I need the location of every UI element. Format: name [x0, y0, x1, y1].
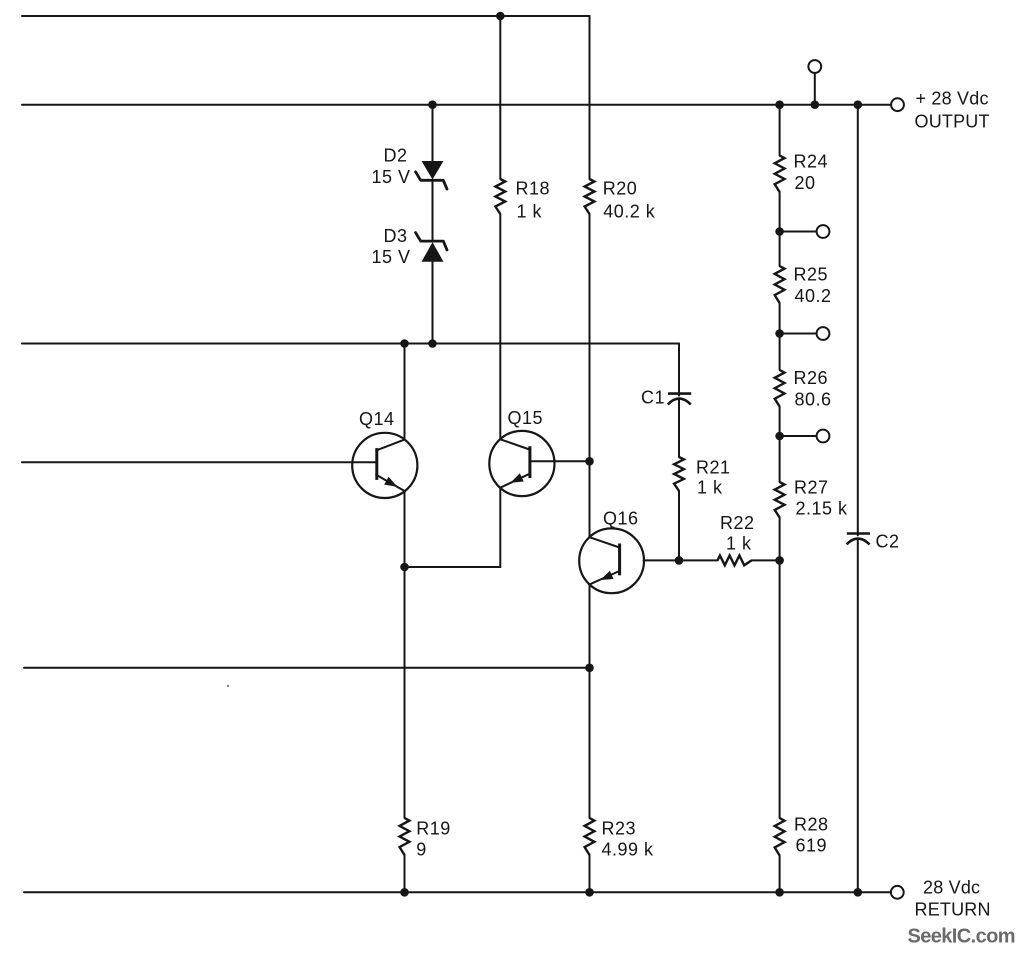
svg-text:Q14: Q14 [359, 409, 395, 429]
resistor R19 [400, 818, 410, 855]
wire third rail (to D3 cathode and C1) [22, 343, 679, 345]
wire C2 top lead [857, 105, 859, 536]
svg-text:+ 28 Vdc: + 28 Vdc [916, 89, 989, 109]
wire tap 3 [780, 435, 817, 437]
svg-text:Q16: Q16 [603, 509, 639, 529]
wire 28V return rail [24, 891, 891, 893]
junction return rail / R28 bottom [775, 888, 784, 897]
terminal 28 Vdc RETURN [891, 886, 904, 899]
wire fifth rail to R23 [589, 668, 591, 818]
svg-text:15 V: 15 V [372, 167, 411, 187]
svg-text:Q15: Q15 [508, 408, 544, 428]
svg-text:R28: R28 [794, 815, 829, 835]
wire Q16 base to R22 [644, 559, 718, 561]
junction Q14 emitter node [400, 563, 409, 572]
svg-text:1 k: 1 k [726, 534, 752, 554]
svg-text:C2: C2 [876, 532, 900, 552]
transistor Q15 body [489, 431, 554, 496]
wire R19 bottom lead [404, 855, 406, 892]
svg-text:40.2 k: 40.2 k [603, 202, 656, 222]
wire D2 anode lead [432, 105, 434, 161]
svg-text:R21: R21 [696, 458, 731, 478]
wire +28V output rail [22, 104, 891, 106]
wire Q15 emitter down [499, 488, 501, 567]
terminal top open circle [808, 60, 821, 73]
svg-text:SeekIC.com: SeekIC.com [908, 926, 1015, 948]
wire R21 bottom lead [678, 491, 680, 560]
resistor R20 [585, 179, 595, 214]
junction tap R24/R25 [775, 227, 784, 236]
wire Q15 emitter to Q14 emitter node [405, 566, 501, 568]
resistor R25 [775, 266, 785, 303]
wire top rail (node to R18/R20 top) [22, 15, 590, 17]
wire tap 2 [780, 333, 817, 335]
wire R24 to R25 [779, 192, 781, 266]
wire third rail corner down to C1 [678, 344, 680, 396]
svg-text:R24: R24 [794, 152, 829, 172]
svg-text:R23: R23 [602, 819, 637, 839]
wire Q14 emitter down [404, 491, 406, 818]
svg-text:R20: R20 [603, 179, 638, 199]
wire R20 bottom to Q16 collector [589, 214, 591, 537]
junction return rail / R23 bottom [585, 888, 594, 897]
svg-text:D3: D3 [384, 226, 408, 246]
svg-text:OUTPUT: OUTPUT [915, 112, 990, 132]
resistor R24 [775, 156, 785, 193]
junction tap R25/R26 [775, 329, 784, 338]
wire C2 bottom lead [857, 539, 859, 893]
junction +28V rail / terminal stub [811, 100, 820, 109]
junction tap R26/R27 [775, 432, 784, 441]
resistor R18 [495, 179, 505, 214]
junction +28V rail / D2 anode [428, 100, 437, 109]
junction fifth rail / R23 line [585, 664, 594, 673]
wire C1 bottom to R21 [678, 399, 680, 457]
terminal tap 3 [817, 430, 830, 443]
junction top rail / R18 line [496, 12, 505, 21]
wire top terminal stub [814, 73, 816, 105]
svg-text:C1: C1 [641, 388, 665, 408]
svg-text:D2: D2 [384, 146, 408, 166]
wire R18 top lead [499, 16, 501, 179]
transistor Q15 emitter stroke [500, 474, 529, 488]
svg-text:15 V: 15 V [372, 247, 411, 267]
junction third rail / Q14 collector line [400, 339, 409, 348]
svg-text:40.2: 40.2 [795, 286, 832, 306]
transistor Q14 collector stroke [376, 440, 404, 451]
wire D3 anode lead [432, 262, 434, 344]
terminal +28 Vdc OUTPUT [891, 98, 904, 111]
junction return rail / C2 bottom [854, 888, 863, 897]
transistor Q15 base stroke [530, 460, 590, 462]
junction R21 / Q16 base node [675, 556, 684, 565]
transistor Q16 body [579, 528, 644, 593]
wire R27 to R28 [779, 518, 781, 819]
svg-text:RETURN: RETURN [915, 900, 991, 920]
transistor Q14 emitter stroke [376, 475, 405, 491]
svg-text:R27: R27 [794, 478, 829, 498]
transistor Q15 emitter arrow [511, 473, 524, 483]
junction R22 / divider chain [775, 556, 784, 565]
resistor R28 [775, 818, 785, 856]
svg-text:28 Vdc: 28 Vdc [923, 878, 980, 898]
wire top rail corner down to R20 [589, 16, 591, 179]
wire R24 top lead [779, 105, 781, 156]
transistor Q16 emitter stroke [590, 571, 620, 584]
resistor R27 [775, 482, 785, 518]
wire Q14 base rail [22, 461, 376, 463]
capacitor C1 [668, 394, 691, 405]
svg-text:R26: R26 [794, 368, 829, 388]
junction Q15 base / R20 line [585, 457, 594, 466]
svg-text:R18: R18 [516, 179, 551, 199]
svg-text:1 k: 1 k [697, 478, 723, 498]
svg-text:20: 20 [795, 173, 816, 193]
capacitor C2 [847, 534, 870, 545]
junction +28V rail / R24 top [775, 100, 784, 109]
wire Q14 collector up to third rail [404, 344, 406, 440]
transistor Q16 emitter arrow [600, 571, 613, 580]
wire Q16 emitter down to fifth rail [589, 584, 591, 667]
terminal tap 1 [817, 225, 830, 238]
transistor Q14 emitter arrow [384, 477, 397, 487]
wire tap 1 [780, 231, 817, 233]
resistor R21 [674, 457, 684, 491]
transistor Q15 collector stroke [500, 439, 529, 449]
wire R23 bottom lead [589, 855, 591, 892]
transistor Q16 collector stroke [590, 537, 620, 547]
svg-text:80.6: 80.6 [795, 390, 832, 410]
resistor R23 [585, 818, 595, 855]
junction +28V rail / C2 top [854, 100, 863, 109]
junction return rail / R19 bottom [400, 888, 409, 897]
svg-text:2.15 k: 2.15 k [796, 499, 849, 519]
wire R28 bottom lead [779, 856, 781, 893]
svg-text:R22: R22 [720, 513, 755, 533]
node speck [227, 685, 229, 687]
resistor R26 [775, 370, 785, 407]
svg-text:R19: R19 [416, 819, 451, 839]
wire R22 to divider chain [752, 559, 780, 561]
svg-text:1 k: 1 k [517, 202, 543, 222]
resistor R22 [718, 556, 752, 566]
svg-text:4.99 k: 4.99 k [602, 840, 655, 860]
zener diode D3 [416, 233, 447, 262]
terminal tap 2 [817, 327, 830, 340]
junction third rail / D3 line [428, 339, 437, 348]
wire R18 bottom to Q15 collector [499, 214, 501, 439]
svg-text:619: 619 [796, 836, 828, 856]
svg-text:9: 9 [416, 840, 427, 860]
wire R25 to R26 [779, 303, 781, 370]
transistor Q14 body [352, 433, 417, 498]
svg-text:R25: R25 [794, 265, 829, 285]
wire D2 cathode to D3 cathode [432, 182, 434, 240]
wire R26 to R27 [779, 407, 781, 483]
zener diode D2 [416, 161, 447, 189]
wire fifth rail (to R23 line) [24, 667, 590, 669]
